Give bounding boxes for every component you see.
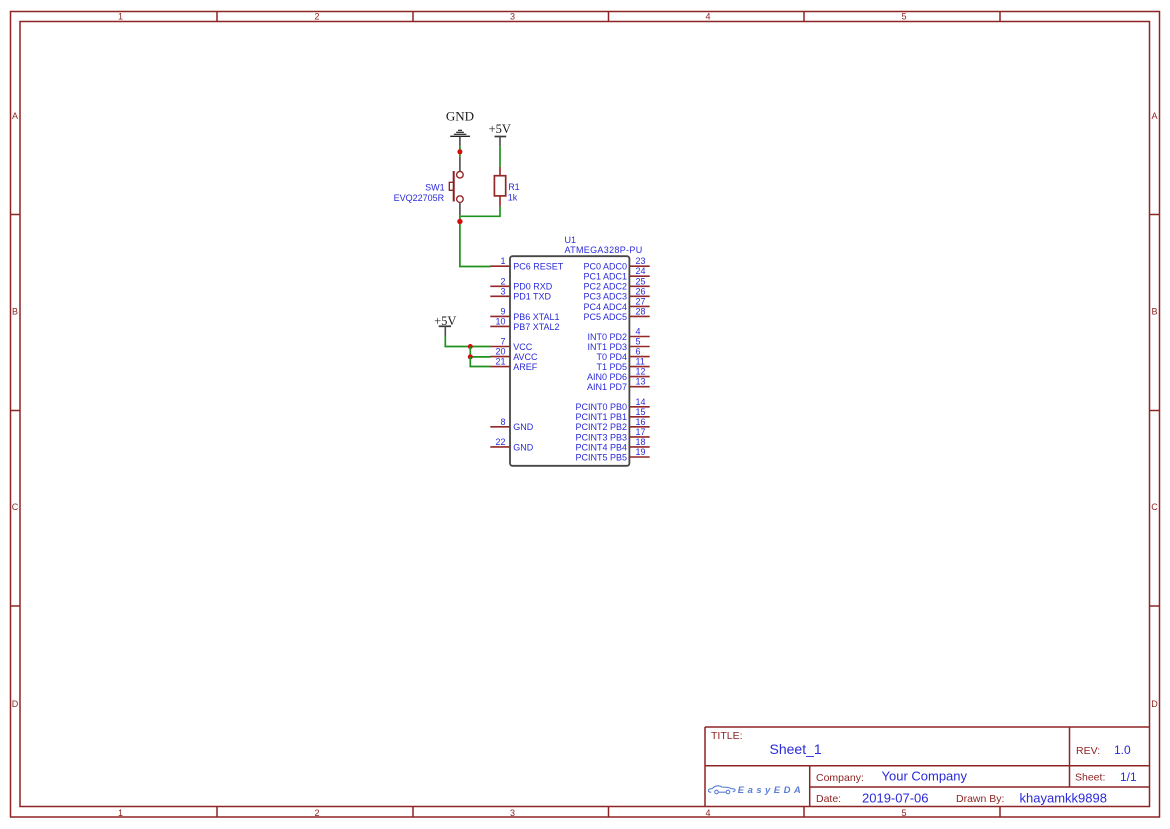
svg-text:3: 3 — [510, 12, 515, 22]
svg-text:14: 14 — [636, 397, 646, 407]
svg-text:12: 12 — [636, 367, 646, 377]
pin 9 (PB6 XTAL1) — [490, 306, 559, 321]
power +5V (VCC net) — [434, 314, 456, 336]
svg-text:GND: GND — [446, 109, 474, 124]
svg-text:VCC: VCC — [513, 342, 533, 352]
svg-text:PC1 ADC1: PC1 ADC1 — [583, 272, 627, 282]
svg-text:Sheet_1: Sheet_1 — [770, 741, 822, 757]
svg-text:5: 5 — [636, 337, 641, 347]
svg-text:PCINT5 PB5: PCINT5 PB5 — [575, 452, 627, 462]
svg-text:17: 17 — [636, 427, 646, 437]
svg-text:ATMEGA328P-PU: ATMEGA328P-PU — [565, 245, 643, 255]
pin 5 (INT1 PD3) — [587, 337, 649, 352]
svg-text:1/1: 1/1 — [1120, 770, 1137, 784]
svg-text:khayamkk9898: khayamkk9898 — [1020, 791, 1107, 806]
svg-text:PCINT4 PB4: PCINT4 PB4 — [575, 442, 627, 452]
svg-text:PCINT1 PB1: PCINT1 PB1 — [575, 412, 627, 422]
svg-text:26: 26 — [636, 286, 646, 296]
junction (AVCC net) — [468, 354, 473, 359]
svg-text:EVQ22705R: EVQ22705R — [394, 193, 445, 203]
svg-text:Date:: Date: — [816, 793, 841, 805]
svg-text:1: 1 — [118, 808, 123, 818]
wire (AVCC to AREF pin 21) — [470, 357, 490, 367]
pin 25 (PC2 ADC2) — [583, 276, 649, 291]
svg-text:+5V: +5V — [489, 122, 511, 136]
svg-text:PCINT2 PB2: PCINT2 PB2 — [575, 422, 627, 432]
svg-text:1: 1 — [118, 12, 123, 22]
label SW1 refdes — [425, 183, 445, 193]
svg-text:PC4 ADC4: PC4 ADC4 — [583, 302, 627, 312]
svg-text:Sheet:: Sheet: — [1075, 771, 1105, 783]
svg-text:4: 4 — [705, 808, 710, 818]
svg-text:23: 23 — [636, 256, 646, 266]
label SW1 value EVQ22705R — [394, 193, 445, 203]
svg-text:C: C — [1151, 502, 1158, 512]
pin 6 (T0 PD4) — [596, 347, 649, 362]
svg-text:B: B — [1151, 307, 1157, 317]
svg-text:PCINT0 PB0: PCINT0 PB0 — [575, 402, 627, 412]
svg-text:B: B — [12, 307, 18, 317]
svg-text:25: 25 — [636, 276, 646, 286]
svg-text:Your Company: Your Company — [882, 769, 968, 784]
svg-text:PB6 XTAL1: PB6 XTAL1 — [513, 312, 559, 322]
pin 27 (PC4 ADC4) — [583, 296, 649, 311]
svg-text:10: 10 — [495, 316, 505, 326]
svg-text:4: 4 — [636, 327, 641, 337]
pin 28 (PC5 ADC5) — [583, 306, 649, 321]
pin 10 (PB7 XTAL2) — [490, 316, 559, 331]
pin 14 (PCINT0 PB0) — [575, 397, 649, 412]
svg-text:PC2 ADC2: PC2 ADC2 — [583, 282, 627, 292]
pin 13 (AIN1 PD7) — [587, 377, 650, 392]
wire (VCC to AVCC pin 20) — [470, 347, 490, 357]
svg-text:2: 2 — [314, 808, 319, 818]
svg-text:PD0 RXD: PD0 RXD — [513, 282, 553, 292]
svg-text:3: 3 — [500, 286, 505, 296]
svg-text:5: 5 — [901, 12, 906, 22]
svg-text:D: D — [12, 699, 19, 709]
pin 16 (PCINT2 PB2) — [575, 417, 649, 432]
svg-text:Company:: Company: — [816, 772, 864, 784]
svg-text:21: 21 — [495, 357, 505, 367]
svg-text:INT0 PD2: INT0 PD2 — [587, 332, 627, 342]
svg-text:REV:: REV: — [1076, 745, 1100, 757]
pin 23 (PC0 ADC0) — [583, 256, 649, 271]
svg-text:PD1 TXD: PD1 TXD — [513, 292, 551, 302]
power +5V (R1 net) — [489, 122, 511, 146]
svg-text:GND: GND — [513, 422, 534, 432]
svg-text:AREF: AREF — [513, 362, 538, 372]
svg-text:AIN0 PD6: AIN0 PD6 — [587, 372, 627, 382]
svg-text:13: 13 — [636, 377, 646, 387]
svg-text:2019-07-06: 2019-07-06 — [862, 790, 929, 805]
pin 3 (PD1 TXD) — [490, 286, 551, 301]
svg-text:D: D — [1151, 699, 1158, 709]
svg-text:3: 3 — [510, 808, 515, 818]
svg-text:PC5 ADC5: PC5 ADC5 — [583, 312, 627, 322]
svg-text:22: 22 — [495, 437, 505, 447]
svg-text:A: A — [12, 111, 18, 121]
svg-text:A: A — [1151, 111, 1157, 121]
svg-text:5: 5 — [901, 808, 906, 818]
svg-text:PB7 XTAL2: PB7 XTAL2 — [513, 322, 559, 332]
resistor R1 — [494, 167, 505, 207]
pin 19 (PCINT5 PB5) — [575, 447, 649, 462]
svg-text:11: 11 — [636, 357, 645, 367]
svg-text:AVCC: AVCC — [513, 352, 538, 362]
net GND label — [446, 109, 474, 124]
ground symbol — [450, 130, 470, 146]
pin 4 (INT0 PD2) — [587, 327, 649, 342]
label U1 refdes — [565, 235, 577, 245]
label R1 refdes — [508, 182, 520, 192]
svg-text:16: 16 — [636, 417, 646, 427]
svg-text:T0 PD4: T0 PD4 — [596, 352, 627, 362]
svg-text:R1: R1 — [508, 182, 520, 192]
IC U1 ATMEGA328P-PU body — [510, 256, 629, 466]
pin 20 (AVCC) — [490, 347, 538, 362]
svg-text:INT1 PD3: INT1 PD3 — [587, 342, 627, 352]
svg-text:AIN1 PD7: AIN1 PD7 — [587, 382, 627, 392]
pin 11 (T1 PD5) — [596, 357, 649, 372]
junction (GND net) — [457, 149, 462, 154]
svg-text:PC3 ADC3: PC3 ADC3 — [583, 292, 627, 302]
svg-text:PC0 ADC0: PC0 ADC0 — [583, 262, 627, 272]
svg-text:TITLE:: TITLE: — [711, 730, 743, 742]
pin 18 (PCINT4 PB4) — [575, 437, 649, 452]
svg-text:24: 24 — [636, 266, 646, 276]
pin 26 (PC3 ADC3) — [583, 286, 649, 301]
svg-text:PC6 RESET: PC6 RESET — [513, 262, 564, 272]
label U1 value ATMEGA328P-PU — [565, 245, 643, 255]
svg-text:6: 6 — [636, 347, 641, 357]
svg-text:7: 7 — [500, 337, 505, 347]
svg-text:2: 2 — [314, 12, 319, 22]
svg-text:C: C — [12, 502, 19, 512]
junction (SW1 / R1 net) — [457, 219, 462, 224]
svg-text:18: 18 — [636, 437, 646, 447]
svg-text:28: 28 — [636, 306, 646, 316]
pin 21 (AREF) — [490, 357, 537, 372]
pin 22 (GND) — [490, 437, 533, 452]
svg-text:2: 2 — [500, 276, 505, 286]
svg-text:27: 27 — [636, 296, 646, 306]
pin 8 (GND) — [490, 417, 533, 432]
pin 7 (VCC) — [490, 337, 532, 352]
wire (GND symbol to SW1 pin 1) — [459, 146, 461, 157]
svg-text:4: 4 — [705, 12, 710, 22]
svg-text:SW1: SW1 — [425, 183, 445, 193]
svg-text:19: 19 — [636, 447, 646, 457]
pin 24 (PC1 ADC1) — [583, 266, 649, 281]
svg-text:Drawn By:: Drawn By: — [956, 793, 1004, 805]
svg-text:U1: U1 — [565, 235, 577, 245]
wire (+5V to R1 pin 1) — [499, 146, 501, 167]
svg-text:1: 1 — [500, 256, 505, 266]
svg-text:EasyEDA: EasyEDA — [738, 785, 804, 796]
svg-text:9: 9 — [500, 306, 505, 316]
junction (VCC net) — [468, 344, 473, 349]
pin 17 (PCINT3 PB3) — [575, 427, 649, 442]
wire (SW1 pin 2 to U1 pin 1) — [460, 216, 491, 267]
svg-text:T1 PD5: T1 PD5 — [596, 362, 627, 372]
label R1 value 1k — [508, 192, 518, 202]
pin 1 (PC6 RESET) — [490, 256, 563, 271]
wire (R1 pin 2 to SW1 net) — [461, 206, 500, 216]
svg-text:PCINT3 PB3: PCINT3 PB3 — [575, 432, 627, 442]
svg-text:8: 8 — [500, 417, 505, 427]
pin 15 (PCINT1 PB1) — [575, 407, 649, 422]
switch SW1 EVQ22705R — [449, 157, 463, 216]
svg-text:15: 15 — [636, 407, 646, 417]
wire (+5V to U1 VCC pin 7) — [445, 336, 490, 346]
svg-text:1k: 1k — [508, 192, 518, 202]
svg-text:1.0: 1.0 — [1114, 743, 1131, 757]
svg-text:GND: GND — [513, 442, 534, 452]
svg-text:20: 20 — [495, 347, 505, 357]
pin 2 (PD0 RXD) — [490, 276, 552, 291]
pin 12 (AIN0 PD6) — [587, 367, 650, 382]
